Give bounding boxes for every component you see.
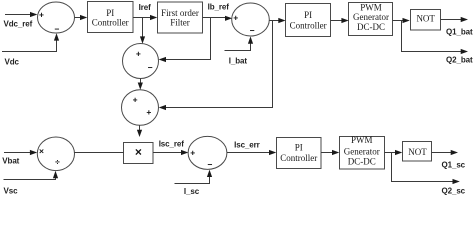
svg-text:Isc_err: Isc_err: [234, 140, 260, 149]
svg-text:First order: First order: [161, 8, 199, 18]
svg-text:PI: PI: [106, 8, 114, 18]
svg-text:+: +: [39, 10, 44, 20]
svg-text:Controller: Controller: [290, 21, 327, 31]
svg-text:×: ×: [135, 145, 142, 159]
svg-text:PI: PI: [295, 143, 303, 153]
svg-text:+: +: [233, 13, 238, 23]
svg-text:I_sc: I_sc: [184, 187, 200, 196]
svg-text:NOT: NOT: [408, 147, 427, 157]
svg-text:÷: ÷: [55, 157, 60, 167]
svg-text:Generator: Generator: [353, 12, 389, 22]
svg-text:DC-DC: DC-DC: [348, 157, 376, 167]
svg-text:Vsc: Vsc: [4, 186, 19, 195]
svg-text:I_bat: I_bat: [229, 56, 248, 65]
svg-text:Vdc: Vdc: [5, 58, 20, 67]
svg-text:Isc_ref: Isc_ref: [159, 140, 185, 149]
svg-text:+: +: [146, 107, 151, 117]
svg-text:PWM: PWM: [351, 135, 373, 145]
svg-text:Q1_bat: Q1_bat: [446, 27, 473, 36]
svg-text:+: +: [133, 94, 138, 104]
svg-text:Ib_ref: Ib_ref: [208, 3, 230, 12]
svg-text:PWM: PWM: [360, 3, 382, 13]
svg-text:Vbat: Vbat: [2, 157, 19, 166]
svg-text:Q2_bat: Q2_bat: [446, 56, 473, 65]
svg-text:Controller: Controller: [280, 153, 317, 163]
svg-text:Generator: Generator: [344, 146, 380, 156]
svg-text:NOT: NOT: [416, 13, 435, 23]
svg-text:+: +: [136, 49, 141, 59]
svg-text:−: −: [250, 26, 255, 36]
svg-text:+: +: [190, 147, 195, 157]
svg-text:Q1_sc: Q1_sc: [442, 160, 466, 169]
svg-text:Controller: Controller: [92, 17, 129, 27]
svg-text:−: −: [208, 159, 213, 169]
svg-text:×: ×: [39, 146, 44, 156]
svg-text:DC-DC: DC-DC: [357, 22, 385, 32]
svg-text:Vdc_ref: Vdc_ref: [4, 20, 33, 29]
svg-text:−: −: [148, 62, 153, 72]
svg-text:−: −: [55, 24, 60, 34]
svg-text:Filter: Filter: [170, 18, 190, 28]
svg-text:PI: PI: [304, 10, 312, 20]
svg-text:Q2_sc: Q2_sc: [442, 187, 466, 196]
svg-text:Iref: Iref: [139, 3, 151, 12]
